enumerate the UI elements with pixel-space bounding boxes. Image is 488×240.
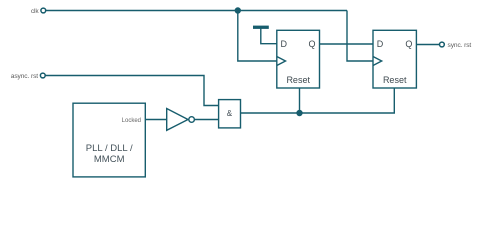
clock triangle — [373, 57, 382, 66]
svg-text:D: D — [281, 39, 288, 49]
inverter (NOT gate) — [167, 109, 195, 131]
svg-text:clk: clk — [31, 8, 40, 15]
wire AND output to flip-flop resets — [241, 88, 395, 113]
flip-flop FF1 — [277, 30, 320, 88]
port sync.rst — [440, 42, 445, 47]
wire tie-high to D1 — [261, 28, 277, 44]
svg-text:Reset: Reset — [383, 75, 407, 85]
svg-text:async. rst: async. rst — [11, 73, 38, 80]
svg-text:D: D — [377, 39, 384, 49]
port async.rst — [40, 73, 45, 78]
wire Q2 to sync.rst port — [416, 44, 439, 46]
clock triangle — [277, 57, 286, 66]
AND gate U1 — [219, 100, 241, 128]
svg-text:PLL / DLL /: PLL / DLL / — [86, 143, 133, 154]
svg-text:Q: Q — [308, 39, 315, 49]
node reset junction — [296, 110, 302, 116]
svg-text:MMCM: MMCM — [94, 154, 125, 165]
svg-text:Reset: Reset — [286, 75, 310, 85]
port clk — [41, 8, 46, 13]
wire clk branch1 vertical to FF1 clock — [238, 11, 277, 62]
node clk junction — [235, 7, 241, 13]
constant tie-high bar — [253, 26, 269, 29]
svg-text:Locked: Locked — [122, 118, 141, 124]
block PLL/DLL/MMCM — [73, 103, 145, 177]
flip-flop FF2 — [373, 30, 416, 88]
svg-text:&: & — [227, 109, 233, 118]
wire Q1 to D2 — [320, 43, 374, 45]
wire FF1 reset stem — [299, 88, 301, 113]
wire async.rst to AND input — [45, 76, 218, 106]
wire Locked to inverter — [145, 119, 166, 121]
svg-text:Q: Q — [405, 39, 412, 49]
wire inverter output to AND input — [195, 119, 219, 121]
svg-text:sync. rst: sync. rst — [448, 42, 472, 49]
wire clk branch2 vertical to FF2 clock — [347, 11, 373, 62]
wire clk horizontal — [46, 10, 347, 12]
